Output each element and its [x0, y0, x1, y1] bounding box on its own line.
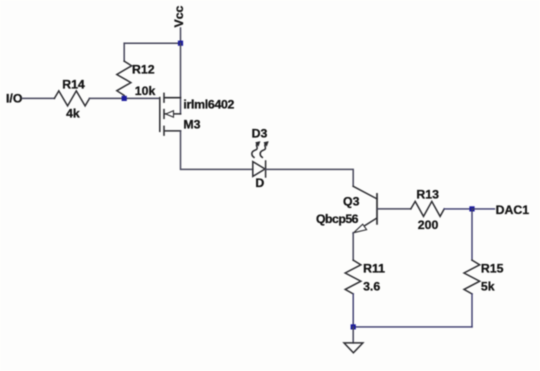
- svg-text:D: D: [255, 176, 264, 190]
- svg-text:R13: R13: [416, 188, 439, 202]
- wire Vcc stem: [180, 28, 182, 43]
- svg-text:R12: R12: [132, 63, 155, 77]
- wire junction to DAC1 label: [472, 208, 495, 210]
- wire R15 bottom lead: [471, 294, 473, 327]
- transistor Q3 (NPN Qbcp56): [353, 186, 377, 232]
- svg-text:DAC1: DAC1: [496, 203, 530, 217]
- svg-text:irlml6402: irlml6402: [183, 97, 234, 111]
- wire bottom rail: [353, 326, 472, 328]
- wire Q3 emitter down to R11: [352, 233, 354, 260]
- svg-text:Vcc: Vcc: [172, 5, 186, 27]
- svg-text:I/O: I/O: [6, 91, 23, 105]
- svg-text:R15: R15: [481, 262, 504, 276]
- node R12/R14 junction: [122, 96, 127, 101]
- wire Vcc down to M3 source: [180, 43, 182, 114]
- svg-text:Qbcp56: Qbcp56: [316, 212, 359, 226]
- svg-text:200: 200: [418, 218, 439, 232]
- node DAC1 junction: [469, 206, 474, 211]
- svg-text:5k: 5k: [481, 280, 495, 294]
- svg-text:10k: 10k: [135, 84, 156, 98]
- wire R11 bottom lead: [352, 294, 354, 327]
- node Vcc junction: [178, 41, 183, 46]
- LED arrows: [252, 142, 268, 158]
- diode D3 (LED): [253, 161, 266, 177]
- wire Vcc horizontal to R12: [124, 42, 180, 44]
- svg-text:3.6: 3.6: [363, 280, 380, 294]
- resistor R14: [54, 91, 89, 106]
- wire DAC1 junction down to R15: [471, 209, 473, 260]
- wire ground stub: [352, 327, 354, 343]
- resistor R11: [345, 260, 361, 294]
- resistor R13: [411, 201, 444, 216]
- transistor M3 (PMOS irlml6402): [160, 93, 181, 135]
- svg-text:4k: 4k: [66, 107, 80, 121]
- wire R13 to DAC1 junction: [444, 208, 472, 210]
- wire I/O lead: [22, 97, 54, 99]
- svg-text:R11: R11: [363, 262, 385, 276]
- wire M3 drain down and right to D3: [181, 131, 253, 170]
- svg-text:Q3: Q3: [343, 194, 360, 208]
- wire Q3 base to R13: [378, 208, 411, 210]
- ground: [344, 343, 363, 353]
- svg-text:D3: D3: [252, 127, 268, 141]
- resistor R12: [117, 61, 132, 98]
- node ground junction: [351, 324, 356, 329]
- svg-text:M3: M3: [183, 117, 200, 131]
- svg-text:R14: R14: [62, 78, 85, 92]
- wire R12 top lead: [123, 43, 125, 61]
- wire D3 cathode to Q3 collector: [266, 169, 354, 186]
- wire R14 to gate: [90, 97, 160, 99]
- resistor R15: [464, 260, 480, 294]
